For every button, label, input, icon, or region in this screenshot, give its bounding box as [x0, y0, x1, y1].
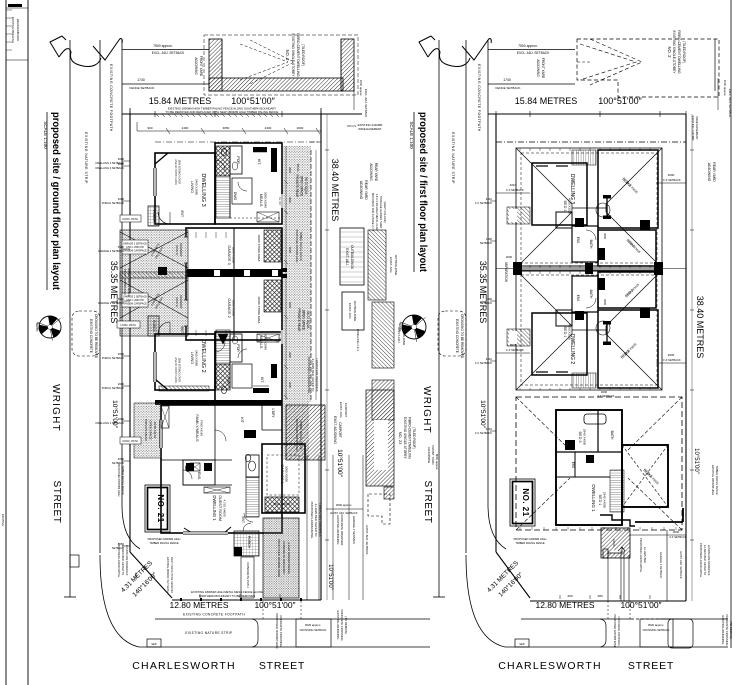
- svg-text:LANDSCAPE DRAWINGS: LANDSCAPE DRAWINGS: [125, 545, 129, 576]
- svg-text:SCALE 1:100: SCALE 1:100: [43, 121, 48, 149]
- svg-text:4050 X3025: 4050 X3025: [568, 198, 572, 215]
- svg-text:NOOK STORE AREA: NOOK STORE AREA: [257, 235, 261, 262]
- svg-text:F-F SETBACK: F-F SETBACK: [663, 358, 681, 362]
- svg-text:PROVISION FOR FUTURE 2.7 X: PROVISION FOR FUTURE 2.7 X: [371, 193, 375, 232]
- svg-text:F-F SETBACK: F-F SETBACK: [475, 431, 492, 435]
- svg-text:38.40 METRES: 38.40 METRES: [330, 159, 340, 222]
- svg-text:BED 3: BED 3: [578, 432, 582, 443]
- svg-text:BATH: BATH: [589, 290, 593, 299]
- svg-text:FENCE SETBACK: FENCE SETBACK: [129, 86, 154, 90]
- svg-text:KIT.: KIT.: [260, 377, 264, 383]
- svg-text:CARPORT: CARPORT: [338, 422, 342, 438]
- svg-text:EXIST. ADJ. SETBACK: EXIST. ADJ. SETBACK: [679, 552, 683, 579]
- svg-text:WIR: WIR: [603, 233, 607, 240]
- svg-text:PROPOSED LANDSCAPING: PROPOSED LANDSCAPING: [699, 543, 703, 577]
- svg-text:(LINK 1): (LINK 1): [175, 245, 179, 255]
- svg-text:SEP: SEP: [151, 642, 156, 646]
- svg-text:CROSSING SETBACK: CROSSING SETBACK: [643, 628, 670, 632]
- svg-text:LONG. PATH: LONG. PATH: [120, 323, 135, 327]
- svg-text:2400: 2400: [182, 126, 189, 130]
- svg-text:FIBRO-CEMENT DWELLING: FIBRO-CEMENT DWELLING: [296, 33, 300, 77]
- svg-text:OPEN SPACE: OPEN SPACE: [149, 420, 153, 439]
- svg-text:PASS.: PASS.: [296, 164, 300, 173]
- svg-text:4.735 X4000: 4.735 X4000: [223, 499, 227, 516]
- svg-text:(LINK 1): (LINK 1): [175, 297, 179, 307]
- svg-text:35.35 METRES: 35.35 METRES: [478, 261, 488, 324]
- svg-text:F-F SETBACK: F-F SETBACK: [670, 535, 687, 539]
- svg-text:F-F SETBACK: F-F SETBACK: [506, 348, 524, 352]
- svg-text:(TILED ROOF): (TILED ROOF): [682, 41, 686, 63]
- svg-text:CROSSING TO BE REMOVED: CROSSING TO BE REMOVED: [94, 314, 98, 359]
- svg-text:4650: 4650: [134, 572, 138, 578]
- svg-text:PORCH: PORCH: [152, 320, 156, 332]
- svg-text:WIDE EASEMENT: WIDE EASEMENT: [695, 116, 699, 140]
- svg-text:PROPOSED 3000MM WIDE: PROPOSED 3000MM WIDE: [613, 614, 617, 647]
- svg-text:100°51'00″: 100°51'00″: [231, 96, 275, 106]
- svg-text:OUTBUILDINGS: OUTBUILDINGS: [350, 245, 354, 269]
- svg-text:CONCRETE CROSSING: CONCRETE CROSSING: [279, 615, 283, 646]
- svg-text:proposed site / first floor pl: proposed site / first floor plan layout: [417, 112, 429, 272]
- svg-text:KIT.: KIT.: [257, 159, 261, 165]
- svg-text:EXISTING SINGLE-STOREY: EXISTING SINGLE-STOREY: [291, 34, 295, 78]
- svg-text:4010: 4010: [486, 197, 493, 201]
- svg-text:EXISTING ADJOINING: EXISTING ADJOINING: [336, 516, 340, 545]
- svg-text:900: 900: [147, 126, 152, 130]
- svg-text:F-F SETBACK: F-F SETBACK: [506, 188, 524, 192]
- svg-text:ADJOINING: ADJOINING: [369, 163, 373, 181]
- svg-text:3000: 3000: [668, 353, 675, 357]
- svg-text:ENS: ENS: [571, 462, 575, 469]
- svg-text:EXISTING ADJOINING: EXISTING ADJOINING: [721, 616, 725, 645]
- svg-text:3000: 3000: [288, 382, 292, 388]
- svg-text:REAR YARD: REAR YARD: [374, 163, 378, 182]
- svg-text:5000: 5000: [288, 247, 292, 253]
- svg-text:EXIST. ADJ.: EXIST. ADJ.: [345, 248, 349, 265]
- svg-text:2400: 2400: [265, 126, 272, 130]
- svg-text:EXCL. ADJ. SETBACK: EXCL. ADJ. SETBACK: [728, 89, 732, 118]
- svg-text:GUEST ROOM: GUEST ROOM: [218, 495, 222, 521]
- svg-text:EXISTING 1800MM HIGH: EXISTING 1800MM HIGH: [711, 465, 715, 495]
- svg-text:TANDEM CARSPACE: TANDEM CARSPACE: [123, 303, 147, 306]
- svg-text:3050: 3050: [223, 126, 230, 130]
- svg-text:12.80 METRES: 12.80 METRES: [169, 600, 228, 610]
- svg-text:EXIST-ADJ: EXIST-ADJ: [397, 327, 401, 343]
- svg-text:PROPOSED LANDSCAPING: PROPOSED LANDSCAPING: [307, 357, 311, 394]
- svg-text:1000: 1000: [486, 237, 493, 241]
- svg-text:BED 1: BED 1: [563, 201, 567, 212]
- svg-text:EXISTING NATURE STRIP: EXISTING NATURE STRIP: [185, 631, 232, 635]
- svg-text:DRIVEWAY: DRIVEWAY: [179, 243, 183, 257]
- svg-text:PRIVATE REAR: PRIVATE REAR: [144, 419, 148, 441]
- svg-text:ADJOINING: ADJOINING: [707, 163, 711, 182]
- svg-text:(TILED ROOF): (TILED ROOF): [412, 427, 416, 448]
- svg-text:GARAGE 1: GARAGE 1: [280, 464, 284, 483]
- svg-text:DWELLING 2 SETBACK: DWELLING 2 SETBACK: [95, 421, 124, 425]
- svg-text:STREET: STREET: [628, 660, 674, 672]
- svg-text:P'DR: P'DR: [236, 344, 240, 352]
- svg-text:ADJOINING: ADJOINING: [359, 181, 363, 200]
- svg-text:100°51'00″: 100°51'00″: [598, 96, 642, 106]
- svg-text:3000 approx.: 3000 approx.: [336, 503, 353, 507]
- svg-text:DWELLING 2 & 3: DWELLING 2 & 3: [356, 329, 360, 351]
- svg-text:PROPOSED LANDSCAPING: PROPOSED LANDSCAPING: [639, 538, 643, 572]
- svg-text:LIVING: LIVING: [190, 352, 194, 364]
- svg-text:OUTBUILDING: OUTBUILDING: [402, 325, 406, 346]
- svg-text:BED 1: BED 1: [598, 495, 602, 506]
- svg-text:GARAGE 3 SETBACK: GARAGE 3 SETBACK: [98, 249, 124, 253]
- svg-text:EXIST. ADJ.: EXIST. ADJ.: [348, 303, 352, 320]
- svg-text:2000: 2000: [118, 352, 125, 356]
- svg-text:PRIVATE REAR: PRIVATE REAR: [297, 309, 301, 333]
- svg-text:10°51'00″: 10°51'00″: [327, 564, 333, 591]
- svg-text:PROPOSED 3000MM WIDE: PROPOSED 3000MM WIDE: [277, 539, 281, 577]
- svg-text:EXIST. ADJ.: EXIST. ADJ.: [339, 402, 343, 419]
- svg-text:ADJOINING: ADJOINING: [536, 59, 540, 77]
- svg-text:56.72 SQ.M.: 56.72 SQ.M.: [306, 311, 310, 329]
- svg-text:LIVING: LIVING: [190, 181, 194, 193]
- svg-text:CONCRETE CROSSING: CONCRETE CROSSING: [340, 609, 344, 640]
- svg-text:PROPOSED 3000MM WIDE: PROPOSED 3000MM WIDE: [275, 613, 279, 649]
- svg-text:(GREY COLOUR): (GREY COLOUR): [383, 202, 387, 223]
- svg-text:OPEN SPACE: OPEN SPACE: [300, 176, 304, 197]
- svg-text:LANDSCAPE DRAWINGS: LANDSCAPE DRAWINGS: [315, 359, 319, 392]
- svg-text:EXISTING CONCRETE FOOTPATH: EXISTING CONCRETE FOOTPATH: [183, 613, 245, 617]
- svg-text:TO BE REMOVED AND REPLACED WIT: TO BE REMOVED AND REPLACED WITH NEW 1800…: [166, 110, 279, 114]
- svg-text:12.80 METRES: 12.80 METRES: [535, 600, 594, 610]
- svg-text:EXISTING SINGLE-STOREY: EXISTING SINGLE-STOREY: [672, 31, 676, 75]
- svg-text:EXIST. ADJOINING: EXIST. ADJOINING: [333, 416, 337, 444]
- svg-text:ENS.: ENS.: [197, 472, 201, 480]
- svg-text:proposed site / ground floor p: proposed site / ground floor plan layout: [50, 112, 62, 290]
- svg-text:15.84 METRES: 15.84 METRES: [515, 96, 578, 106]
- svg-text:7500 approx.: 7500 approx.: [518, 44, 538, 48]
- svg-text:WRIGHT: WRIGHT: [50, 384, 61, 432]
- svg-text:EXCL. ADJ. SETBACK: EXCL. ADJ. SETBACK: [364, 89, 368, 118]
- svg-text:& LAWN BED. KEYED TO: & LAWN BED. KEYED TO: [311, 359, 315, 393]
- svg-text:2000: 2000: [118, 382, 125, 386]
- svg-text:PROPOSED 1800MM HIGH: PROPOSED 1800MM HIGH: [117, 464, 121, 497]
- svg-text:10°51'00″: 10°51'00″: [336, 449, 344, 478]
- svg-text:NO. 2: NO. 2: [667, 47, 672, 59]
- svg-text:3080 X5000: 3080 X5000: [232, 300, 236, 317]
- svg-text:& LAWN BED. KEYED TO: & LAWN BED. KEYED TO: [121, 545, 125, 575]
- svg-text:FAMILY/MEALS: FAMILY/MEALS: [195, 414, 199, 442]
- svg-text:PORCH SETBACK: PORCH SETBACK: [102, 201, 124, 205]
- svg-text:TANDEM CARSPACE: TANDEM CARSPACE: [123, 250, 147, 253]
- svg-text:FRONT YARD: FRONT YARD: [541, 58, 545, 79]
- svg-text:2000: 2000: [297, 126, 304, 130]
- svg-text:FIBRO-CEMENT DWELLING: FIBRO-CEMENT DWELLING: [677, 30, 681, 74]
- svg-text:FRONT YARD: FRONT YARD: [199, 56, 203, 77]
- svg-text:4050 X3025: 4050 X3025: [568, 324, 572, 341]
- svg-text:WIDE EASEMENT: WIDE EASEMENT: [358, 127, 382, 131]
- svg-text:DWELLING 1: DWELLING 1: [591, 484, 596, 512]
- svg-text:PROPOSED LANDSCAPING: PROPOSED LANDSCAPING: [310, 502, 314, 539]
- svg-text:ENS: ENS: [576, 295, 580, 302]
- svg-text:GARAGE 2: GARAGE 2: [227, 298, 231, 317]
- svg-text:3000: 3000: [288, 167, 292, 173]
- svg-text:TIMBER PALING FENCE: TIMBER PALING FENCE: [715, 465, 719, 495]
- svg-text:PROPOSED 1800MM HIGH: PROPOSED 1800MM HIGH: [148, 537, 181, 541]
- svg-text:2000: 2000: [118, 197, 125, 201]
- svg-text:1740: 1740: [503, 78, 511, 82]
- svg-text:BED 1: BED 1: [563, 327, 567, 338]
- svg-text:PORCH: PORCH: [152, 210, 156, 222]
- svg-text:10°51'00″: 10°51'00″: [479, 400, 487, 429]
- svg-text:38.40 METRES: 38.40 METRES: [695, 296, 705, 359]
- svg-text:F-F SETBACK: F-F SETBACK: [475, 361, 492, 365]
- svg-text:5000: 5000: [288, 302, 292, 308]
- svg-text:5500: 5500: [118, 245, 125, 249]
- svg-text:GAR.: GAR.: [612, 539, 616, 547]
- svg-text:CHARLESWORTH: CHARLESWORTH: [498, 660, 601, 672]
- svg-text:North: North: [35, 323, 39, 332]
- svg-text:CONC. PATH: CONC. PATH: [122, 217, 138, 221]
- svg-text:EXISTING CONCRETE: EXISTING CONCRETE: [89, 319, 93, 353]
- svg-text:& LAWN BED: & LAWN BED: [643, 547, 647, 563]
- svg-text:L'DRY: L'DRY: [271, 408, 275, 418]
- svg-text:EXISTING 1800MM HIGH METAL: EXISTING 1800MM HIGH METAL: [166, 557, 169, 594]
- svg-text:EXISTING ADJOINING: EXISTING ADJOINING: [336, 611, 340, 640]
- svg-text:3460 X3880: 3460 X3880: [195, 179, 199, 196]
- svg-text:STORAGE GARDEN SHED: STORAGE GARDEN SHED: [379, 196, 383, 229]
- svg-text:2000: 2000: [506, 255, 513, 259]
- svg-text:TIMBER PALING FENCE: TIMBER PALING FENCE: [299, 231, 303, 261]
- svg-text:4650: 4650: [118, 457, 125, 461]
- svg-text:MESH FENCE TO BE REMOVED: MESH FENCE TO BE REMOVED: [170, 557, 173, 593]
- svg-text:STREET: STREET: [51, 480, 62, 523]
- svg-text:ADJOINING: ADJOINING: [194, 57, 198, 75]
- svg-text:1.8 X 2.2M HIGH METAL CLAD: 1.8 X 2.2M HIGH METAL CLAD: [375, 194, 379, 231]
- svg-text:EXCL. ADJ. SETBACK: EXCL. ADJ. SETBACK: [517, 51, 550, 55]
- svg-text:DWG: DWG: [233, 192, 237, 201]
- svg-text:TIMBER PALING FENCE: TIMBER PALING FENCE: [149, 541, 179, 545]
- svg-text:3080 X5550: 3080 X5550: [285, 466, 289, 483]
- svg-text:TIMBER PALING FENCE: TIMBER PALING FENCE: [515, 541, 545, 545]
- svg-text:BATH: BATH: [589, 240, 593, 249]
- svg-text:TIMBER PALING FENCE: TIMBER PALING FENCE: [121, 465, 125, 495]
- svg-text:2840 X4050: 2840 X4050: [603, 492, 607, 509]
- svg-text:4780 X4140: 4780 X4140: [200, 420, 204, 437]
- svg-text:5500: 5500: [118, 297, 125, 301]
- svg-text:SL. DR: SL. DR: [278, 197, 281, 205]
- svg-text:3000: 3000: [567, 595, 573, 598]
- svg-text:PROP. 1800MM HIGH: PROP. 1800MM HIGH: [123, 269, 127, 295]
- svg-text:3460 X3880: 3460 X3880: [195, 350, 199, 367]
- svg-text:15.84 METRES: 15.84 METRES: [149, 96, 212, 106]
- svg-text:GARAGE 3: GARAGE 3: [227, 245, 231, 264]
- svg-text:2940: 2940: [288, 197, 292, 203]
- svg-text:CHARLESWORTH: CHARLESWORTH: [132, 660, 235, 672]
- svg-text:3080 X5000: 3080 X5000: [232, 247, 236, 264]
- svg-text:PORCH SETBACK: PORCH SETBACK: [102, 356, 124, 360]
- svg-text:P'TRY: P'TRY: [226, 377, 230, 386]
- svg-text:EXISTING NATURE STRIP: EXISTING NATURE STRIP: [84, 132, 88, 184]
- svg-text:56.72 SQ.M.: 56.72 SQ.M.: [304, 177, 308, 195]
- svg-text:7500 approx.: 7500 approx.: [153, 44, 173, 48]
- svg-text:3000: 3000: [118, 417, 125, 421]
- svg-text:DWELLING 2: DWELLING 2: [200, 339, 206, 372]
- svg-text:DWELLING 3: DWELLING 3: [200, 173, 206, 206]
- svg-text:GARAGE 2 SETBACK: GARAGE 2 SETBACK: [98, 301, 124, 305]
- svg-text:OPEN SPACE: OPEN SPACE: [302, 310, 306, 331]
- svg-text:GARAGE 1 SETBACK: GARAGE 1 SETBACK: [659, 552, 663, 578]
- svg-text:1740: 1740: [137, 78, 145, 82]
- svg-text:2000: 2000: [486, 297, 493, 301]
- svg-text:& LAWN BED. KEYED TO: & LAWN BED. KEYED TO: [703, 545, 707, 575]
- svg-text:SEPARATION: SEPARATION: [504, 262, 508, 283]
- svg-text:REAR YARD: REAR YARD: [712, 162, 716, 182]
- svg-text:F-F SETBACK: F-F SETBACK: [475, 201, 492, 205]
- svg-text:REAR YARD: REAR YARD: [364, 180, 368, 200]
- svg-text:EXISTING CONCRETE FOOTPATH: EXISTING CONCRETE FOOTPATH: [477, 64, 481, 132]
- svg-text:P.P.O.S.: P.P.O.S.: [347, 124, 357, 128]
- svg-text:LINE OF FIRST FLOOR: LINE OF FIRST FLOOR: [174, 159, 177, 185]
- svg-text:DWELLING 3 SETBACK: DWELLING 3 SETBACK: [95, 166, 124, 170]
- svg-text:F-F SETBACK: F-F SETBACK: [663, 178, 681, 182]
- svg-text:3620 approx.: 3620 approx.: [305, 623, 322, 627]
- svg-text:NORTHERN BOUNDARY TO BE REMOVE: NORTHERN BOUNDARY TO BE REMOVED: [199, 594, 255, 598]
- svg-text:ENT.: ENT.: [180, 327, 184, 334]
- svg-text:& LAWN BED. KEYED TO: & LAWN BED. KEYED TO: [314, 504, 318, 538]
- svg-text:F-F SETBACK: F-F SETBACK: [598, 394, 615, 398]
- svg-text:CONCRETE CROSSING: CONCRETE CROSSING: [725, 614, 729, 645]
- svg-text:PROPOSED 1800MM HIGH: PROPOSED 1800MM HIGH: [514, 537, 547, 541]
- svg-text:CONC. PATH: CONC. PATH: [122, 439, 138, 443]
- svg-text:(TILED ROOF): (TILED ROOF): [301, 44, 305, 66]
- svg-text:ROLL-A-DOOR: ROLL-A-DOOR: [274, 503, 291, 506]
- svg-text:NO. 21: NO. 21: [156, 494, 165, 522]
- svg-text:EXISTING SINGLE-STOREY: EXISTING SINGLE-STOREY: [403, 417, 407, 459]
- svg-text:6210: 6210: [486, 427, 493, 431]
- svg-text:BATH: BATH: [610, 431, 614, 440]
- svg-text:LANDSCAPE DRAWINGS: LANDSCAPE DRAWINGS: [707, 545, 711, 576]
- svg-text:100°51'00″: 100°51'00″: [254, 600, 295, 610]
- svg-text:8000 approx.: 8000 approx.: [435, 454, 439, 471]
- svg-text:SETBACK: SETBACK: [480, 301, 492, 305]
- svg-text:1000 approx.: 1000 approx.: [359, 80, 363, 97]
- svg-text:DRIVEWAY: DRIVEWAY: [179, 295, 183, 309]
- svg-text:2940: 2940: [288, 352, 292, 358]
- svg-text:FENCE SETBACK: FENCE SETBACK: [495, 86, 520, 90]
- svg-text:PROPOSED 1800MM HIGH: PROPOSED 1800MM HIGH: [295, 419, 299, 452]
- svg-text:35.35 METRES: 35.35 METRES: [109, 261, 119, 324]
- svg-text:LANDSCAPE DRAWINGS: LANDSCAPE DRAWINGS: [318, 504, 322, 537]
- svg-text:EXISTING NATURE STRIP: EXISTING NATURE STRIP: [451, 132, 455, 184]
- svg-text:FIBRO-CEMENT DWELLING: FIBRO-CEMENT DWELLING: [408, 417, 412, 459]
- svg-text:PORCH: PORCH: [247, 536, 251, 549]
- svg-text:ENS: ENS: [576, 237, 580, 244]
- svg-text:4010: 4010: [510, 343, 517, 347]
- svg-text:LINE OF FIRST FLOOR: LINE OF FIRST FLOOR: [174, 357, 177, 383]
- svg-text:EXCL. ADJ. SETBACK: EXCL. ADJ. SETBACK: [152, 51, 185, 55]
- svg-text:1800 SETBACK OVER: 1800 SETBACK OVER: [178, 358, 181, 383]
- svg-text:PROPOSED LANDSCAPING: PROPOSED LANDSCAPING: [117, 543, 121, 577]
- svg-text:100°51'00″: 100°51'00″: [620, 600, 661, 610]
- svg-text:4600: 4600: [601, 390, 608, 394]
- svg-text:OUTBUILDING: OUTBUILDING: [394, 255, 398, 276]
- svg-text:SCALE 1:100: SCALE 1:100: [409, 121, 414, 149]
- svg-text:CONCRETE DRIVEWAY: CONCRETE DRIVEWAY: [282, 541, 286, 574]
- svg-text:4010: 4010: [510, 183, 517, 187]
- svg-text:NOOK STORE AREA: NOOK STORE AREA: [257, 297, 261, 324]
- svg-text:WIR: WIR: [603, 299, 607, 306]
- svg-text:NO. 21: NO. 21: [521, 488, 530, 516]
- svg-text:KIT: KIT: [240, 417, 244, 422]
- svg-text:OUTBUILDING: OUTBUILDING: [353, 301, 357, 322]
- svg-text:CONCRETE DRIVEWAY: CONCRETE DRIVEWAY: [340, 514, 344, 545]
- svg-text:NO. 23: NO. 23: [398, 432, 403, 445]
- svg-text:EXIST. ADJ. SETBACK: EXIST. ADJ. SETBACK: [365, 525, 369, 554]
- svg-text:FRONT YARD: FRONT YARD: [431, 445, 435, 465]
- svg-text:SETBACK: SETBACK: [480, 241, 492, 245]
- svg-text:3620 approx.: 3620 approx.: [648, 623, 665, 627]
- svg-text:4010: 4010: [486, 357, 493, 361]
- svg-text:PROPOSED 1800MM HIGH: PROPOSED 1800MM HIGH: [295, 230, 299, 263]
- svg-text:EXISTING: EXISTING: [1, 514, 5, 526]
- svg-text:MEALS: MEALS: [259, 194, 263, 207]
- svg-text:40.88 SQ.M.: 40.88 SQ.M.: [153, 422, 157, 439]
- svg-text:CONCRETE CROSSING: CONCRETE CROSSING: [617, 616, 621, 645]
- svg-text:3000: 3000: [118, 157, 125, 161]
- svg-text:CARPORT: CARPORT: [344, 403, 348, 418]
- svg-text:EXISTING DWELLING: EXISTING DWELLING: [11, 17, 15, 43]
- svg-text:WRIGHT: WRIGHT: [421, 386, 432, 434]
- svg-text:DWELLING 1: DWELLING 1: [212, 495, 217, 521]
- svg-text:NO. 2: NO. 2: [285, 50, 290, 62]
- svg-text:TIMBER PALING FENCE: TIMBER PALING FENCE: [299, 420, 303, 450]
- svg-text:SEP: SEP: [519, 642, 524, 646]
- svg-text:STREET: STREET: [422, 480, 433, 523]
- svg-text:2840 X4000: 2840 X4000: [583, 429, 587, 446]
- svg-text:ADJOINING: ADJOINING: [427, 447, 431, 464]
- svg-text:4650: 4650: [597, 595, 603, 598]
- svg-text:PORCH SETBACK: PORCH SETBACK: [102, 386, 124, 390]
- svg-text:CROSSING TO BE REMOVED: CROSSING TO BE REMOVED: [460, 314, 464, 359]
- svg-text:PRIVATE REAR: PRIVATE REAR: [295, 175, 299, 199]
- svg-text:4600: 4600: [673, 530, 680, 534]
- svg-text:EXIST. ADJ. SETBACK: EXIST. ADJ. SETBACK: [331, 511, 358, 515]
- svg-text:(LIGHT BROOM FINISH): (LIGHT BROOM FINISH): [287, 542, 291, 573]
- svg-text:P'DR: P'DR: [236, 156, 240, 164]
- svg-text:TIMBER PALING FENCE: TIMBER PALING FENCE: [127, 267, 131, 297]
- svg-text:(TO REMAIN): (TO REMAIN): [344, 616, 348, 633]
- svg-text:3000: 3000: [668, 173, 675, 177]
- svg-text:CONCRETE PATH: CONCRETE PATH: [246, 562, 250, 587]
- svg-text:GARAGE 1 SETBACK: GARAGE 1 SETBACK: [352, 516, 356, 544]
- svg-text:1000 approx.: 1000 approx.: [723, 80, 727, 97]
- svg-text:ENT.: ENT.: [241, 517, 245, 524]
- svg-text:DWELLING 3 SETBACK: DWELLING 3 SETBACK: [95, 161, 124, 165]
- svg-text:10°51'00″: 10°51'00″: [693, 448, 699, 475]
- svg-text:EXIST. ADJ.: EXIST. ADJ.: [389, 257, 393, 274]
- svg-text:3080 X2940: 3080 X2940: [264, 192, 268, 209]
- svg-text:CROSSING SETBACK: CROSSING SETBACK: [300, 628, 327, 632]
- svg-text:STREET: STREET: [259, 660, 305, 672]
- svg-text:EXISTING 2440MM: EXISTING 2440MM: [691, 116, 695, 141]
- svg-text:ENT.: ENT.: [180, 211, 184, 218]
- svg-text:EXISTING CONCRETE: EXISTING CONCRETE: [455, 319, 459, 353]
- svg-text:EXISTING CONCRETE FOOTPATH: EXISTING CONCRETE FOOTPATH: [109, 64, 113, 132]
- svg-text:1800 SETBACK OVER: 1800 SETBACK OVER: [178, 160, 181, 185]
- svg-text:WEATHERBOARD: WEATHERBOARD: [16, 19, 20, 41]
